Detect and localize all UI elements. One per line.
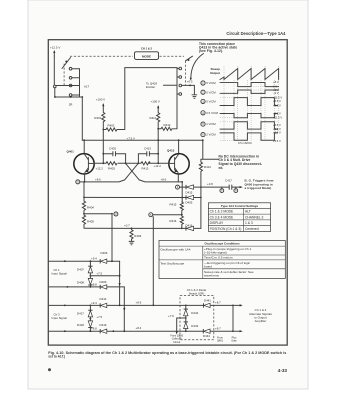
wire R411 bottom to base rail [157,129,159,164]
svg-text:D406: D406 [101,251,108,255]
svg-text:+100 V: +100 V [151,100,160,104]
wire collector loop rectangle [125,68,177,130]
node test point 3 [76,180,80,184]
svg-text:R409: R409 [134,234,141,238]
diode D414 [100,297,107,308]
svg-text:D418: D418 [77,323,84,327]
svg-text:5 V/CM: 5 V/CM [206,81,216,85]
resistor R411 [149,113,159,129]
svg-text:Fig. 4-10. Schematic diagra: Fig. 4-10. Schematic diagram of the Ch 1… [48,351,286,355]
resistor R405 [82,214,94,229]
capacitor C417 and output [201,179,243,190]
svg-text:ALT: ALT [245,210,251,214]
wire Ch3 row 2 (gate rail B) [49,330,204,332]
svg-text:D442: D442 [191,311,198,315]
wire dashed left wiper path [63,64,65,86]
note No DC interconnection text [219,154,263,169]
svg-text:Q401: Q401 [67,150,75,154]
svg-text:Ch 1 & 2 MODE: Ch 1 & 2 MODE [210,210,234,214]
diode gate dashed box [180,296,214,340]
switch SW-left wiper [62,58,71,69]
label Sweep Output [210,67,220,75]
svg-text:+12.5 V: +12.5 V [50,46,60,50]
trace marker 6 [201,133,216,137]
svg-text:2 V/CM: 2 V/CM [206,133,216,137]
svg-text:Q461: Q461 [217,340,224,343]
svg-text:Amplifier: Amplifier [255,319,267,323]
diode D419 [100,323,107,333]
node +12.5V supply [50,46,60,56]
wire R401 bottom to base rail [102,130,104,164]
svg-text:board: board [204,265,212,269]
waveform graticule [224,66,279,141]
svg-text:D417: D417 [77,311,84,315]
svg-text:+3.8: +3.8 [207,182,213,186]
svg-text:+8 V: +8 V [273,80,279,84]
svg-text:+8.7: +8.7 [215,301,221,305]
diode D416 [182,223,201,230]
resistor R409 [130,228,142,241]
node test point B at Q413 emitter [176,185,183,189]
transistor Q401 [67,150,95,174]
resistor R404 [82,197,94,214]
wire switch common [54,88,83,140]
resistor R414 [199,139,219,174]
svg-text:R414: R414 [204,165,211,169]
wire base rail [94,162,169,164]
svg-text:4-33: 4-33 [278,368,288,373]
node Ch 1 input label [52,268,68,276]
table Oscilloscope Conditions [159,241,285,279]
svg-text:ALT: ALT [84,85,89,89]
diode D441 [204,298,234,307]
resistor R402 [102,124,124,132]
svg-text:R416: R416 [170,219,177,223]
waveform trace 6 [220,133,278,140]
switch MODE box [135,47,159,60]
waveform trace 1 [220,83,279,87]
svg-text:D415: D415 [186,191,193,195]
trace marker 3 [201,99,216,103]
resistor R401 [94,112,105,129]
svg-text:+5.5 V: +5.5 V [273,131,281,135]
switch SW-right wiper [186,56,193,61]
resistor R403 [96,162,118,171]
svg-text:0 V: 0 V [273,84,277,88]
wire emitter lower rail [84,196,182,198]
diode D406 [100,251,108,263]
svg-text:set to ALT.): set to ALT.) [48,355,65,359]
wire Q401 collector [83,140,85,153]
wire +7.5V collector bus [82,136,203,141]
node terminal A [220,187,224,193]
svg-text:+8.7: +8.7 [215,326,221,330]
wire dashed right wiper drop [184,61,186,85]
node terminal B [234,187,238,193]
svg-text:C403: C403 [109,147,116,151]
note Ch 1 &amp; 2 Diode Switch label [187,288,207,295]
svg-text:D414: D414 [100,297,107,301]
svg-text:+8.4: +8.4 [136,326,142,330]
svg-text:R401: R401 [94,116,101,120]
schematic frame [48,40,287,345]
ground [192,95,198,99]
wire lower bias rail [84,227,182,229]
svg-text:Output: Output [210,71,220,75]
trace marker 1 [201,81,216,85]
resistor R413 [141,162,161,171]
waveform trace 2 [220,90,279,93]
wire output tie [232,304,243,332]
table Type 1A4 Control Settings [208,203,270,232]
svg-text:+9.4: +9.4 [91,257,97,261]
wire Q413 emitter drop [178,174,183,183]
svg-text:R403: R403 [108,166,115,170]
node To Q403 Emitter tap [146,81,177,88]
svg-text:CHANNEL 3: CHANNEL 3 [245,215,264,219]
svg-text:CH 1 & 2: CH 1 & 2 [141,47,153,51]
svg-text:+8.8: +8.8 [91,327,97,331]
svg-text:1 V/CM: 1 V/CM [206,122,216,126]
wire corner drop ch1-row1 [119,261,121,305]
node test point 5 stub [149,213,183,217]
svg-text:D419: D419 [100,323,107,327]
svg-text:+0.7: +0.7 [124,223,130,227]
svg-text:Test Oscilloscope: Test Oscilloscope [160,262,184,266]
svg-text:R413: R413 [142,166,149,170]
svg-text:D443: D443 [191,324,198,328]
svg-text:D409: D409 [100,280,107,284]
svg-text:waveforms: waveforms [204,273,219,277]
diode D407 [77,261,93,276]
diode D409 [100,280,107,289]
wire dashed MODE line right [160,55,185,57]
svg-text:Input Signal: Input Signal [52,316,68,320]
svg-text:+5 V: +5 V [273,88,279,92]
svg-text:D407: D407 [77,267,84,271]
svg-text:C417: C417 [225,179,232,183]
svg-text:+5.5 V: +5.5 V [273,139,281,143]
wire right vertical R414/D416 [200,175,202,229]
svg-text:R404: R404 [87,206,94,210]
svg-text:a triggered Mode): a triggered Mode) [245,186,272,190]
resistor R415 [170,202,184,216]
note From Q443 Collector Circuit [170,335,183,344]
wire cross-coupling diagonal B [80,163,138,182]
wire Ch1 row 1 [49,260,120,262]
node +0.5 junction and ground [182,80,195,95]
svg-text:+8.6: +8.6 [161,177,167,181]
diode D408 [77,276,93,287]
diode D415 [182,185,202,195]
svg-text:+0.5: +0.5 [187,80,193,84]
svg-text:Q413: Q413 [167,149,175,153]
resistor R412 [157,123,177,130]
svg-text:1 & 3: 1 & 3 [245,221,253,225]
svg-text:+12.2: +12.2 [154,164,162,168]
trace marker 2 [201,90,216,94]
svg-text:Signal to Q430 disconnect-: Signal to Q430 disconnect- [219,162,263,166]
svg-text:0.5 mS/CM: 0.5 mS/CM [238,141,252,145]
svg-text:+8.8: +8.8 [91,282,97,286]
svg-text:+8.9: +8.9 [136,300,142,304]
svg-text:R415: R415 [170,202,177,206]
wire emitter branch vertical [181,182,183,202]
svg-text:(see Fig. 4-12).: (see Fig. 4-12). [199,49,223,53]
svg-text:Input Signal: Input Signal [52,272,68,276]
wire cross-coupling diagonal A [126,163,179,182]
svg-text:5 V/CM: 5 V/CM [206,90,216,94]
diode D405 [181,195,202,204]
switch contact right column [177,67,182,95]
svg-text:+11.5 V: +11.5 V [273,116,282,120]
note callout: This connection place Q413 in active state [190,42,238,81]
svg-text:−4 V: −4 V [273,91,279,95]
svg-text:MODE: MODE [142,54,151,58]
node Ch 3 input label [52,312,68,320]
svg-text:DISPLAY: DISPLAY [210,221,224,225]
diode D417 [77,305,93,319]
svg-text:Circuit: Circuit [173,341,180,344]
capacitor C413 [138,147,159,164]
wire mid tap ch1 [90,275,119,277]
svg-text:+8.6: +8.6 [95,177,101,181]
footer mark [48,368,51,371]
svg-text:+5.5 V: +5.5 V [273,123,281,127]
svg-text:Oscilloscope Conditions: Oscilloscope Conditions [205,242,241,246]
svg-text:R402: R402 [108,124,115,128]
svg-text:0.5 V/CM: 0.5 V/CM [206,111,218,115]
svg-text:D408: D408 [77,280,84,284]
wire corner drop ch1-row2 [123,287,125,331]
note B.G. triggers text [245,179,274,191]
svg-text:C413: C413 [144,147,151,151]
resistor R416 [170,216,184,229]
svg-text:ed.: ed. [219,166,224,170]
capacitor C403 [102,147,125,164]
svg-text:R411: R411 [149,116,156,120]
svg-text:+5.5 V: +5.5 V [273,99,281,103]
svg-text:+2.5 V: +2.5 V [273,127,281,131]
svg-text:POSITION (Ch 1 & 3): POSITION (Ch 1 & 3) [210,227,242,231]
svg-text:+7.5: +7.5 [96,272,102,276]
svg-text:D405: D405 [186,201,193,205]
wire Q413 collector [178,140,180,153]
svg-text:D441: D441 [204,298,211,302]
wire Ch3 row 1 (gate rail A) [49,305,204,307]
svg-text:D444: D444 [203,334,210,338]
svg-text:(~10-kHz signal): (~10-kHz signal) [204,251,227,255]
wire tap to test point 2 [84,212,118,216]
switch contact left column [54,67,90,106]
waveform complement dotted levels [220,83,278,141]
trace marker 5 [201,122,216,126]
svg-text:+9.4: +9.4 [91,301,97,305]
svg-text:+11.5 V: +11.5 V [273,95,282,99]
svg-text:Gate: Gate [231,340,237,343]
svg-text:Switch (OR): Switch (OR) [189,292,205,296]
svg-text:+3.5 V: +3.5 V [273,103,281,107]
waveform trace 4 [220,114,278,118]
note From Q461 / Plus Gate [217,336,237,342]
svg-text:Oscilloscope with 1A4: Oscilloscope with 1A4 [160,248,191,252]
wire From Q443 tap [176,318,186,334]
waveform trace 5 [220,122,278,129]
svg-text:+12.2: +12.2 [96,166,104,170]
svg-text:Type 1A4 Control Settings: Type 1A4 Control Settings [221,204,259,208]
wire dashed MODE line left [70,55,133,57]
svg-text:+100 V: +100 V [96,98,105,102]
svg-text:+7.5: +7.5 [96,315,102,319]
node +100V right [151,100,160,113]
wire +12.5V drop [53,56,55,85]
svg-text:Time/Cm: 0.5 ms/cm: Time/Cm: 0.5 ms/cm [204,256,233,260]
svg-text:+7.9: +7.9 [168,314,174,318]
wire drop to Ch1 row [111,214,113,261]
diode D443 [184,318,199,331]
diode D418 [77,319,93,332]
transistor Q413 [167,149,189,174]
svg-text:2R: 2R [69,102,73,106]
wire long drop to gate [152,217,154,306]
svg-text:Ch 3 & 4 MODE: Ch 3 & 4 MODE [210,215,234,219]
note alternate signals text [249,308,272,323]
node +100V left [96,98,105,113]
diode D442 [184,305,199,319]
diode D444 [203,329,233,338]
waveform voltage labels [273,80,282,143]
wire Ch1 row 2 [49,286,125,288]
svg-text:R412: R412 [164,123,171,127]
waveform sawtooth [220,69,279,80]
svg-text:Emitter: Emitter [146,85,155,89]
trace marker 4 [201,111,219,115]
svg-text:Circuit Description—Type 1A4: Circuit Description—Type 1A4 [226,31,286,36]
svg-text:R405: R405 [87,219,94,223]
svg-text:Centered: Centered [245,227,259,231]
wire Q401 emitter drop [84,174,86,197]
svg-text:+5.5 V: +5.5 V [273,111,281,115]
waveform trace 3 [220,98,278,106]
ground [129,241,135,244]
svg-text:5 V/CM: 5 V/CM [206,100,216,104]
